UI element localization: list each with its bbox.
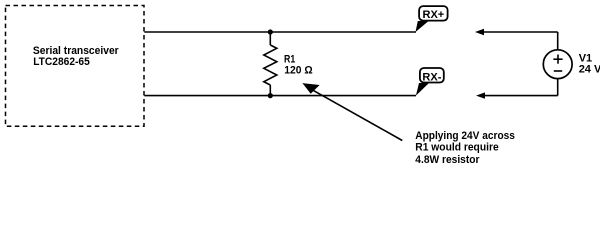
svg-text:4.8W resistor: 4.8W resistor — [415, 154, 480, 163]
svg-text:120 Ω: 120 Ω — [284, 65, 313, 77]
svg-text:Applying 24V across: Applying 24V across — [415, 130, 515, 142]
svg-text:RX-: RX- — [422, 71, 441, 83]
svg-text:R1 would require: R1 would require — [415, 142, 498, 154]
svg-text:LTC2862-65: LTC2862-65 — [33, 56, 90, 68]
svg-text:RX+: RX+ — [423, 9, 445, 21]
svg-text:Serial transceiver: Serial transceiver — [33, 45, 119, 57]
svg-text:V1: V1 — [579, 53, 592, 65]
svg-text:24 V: 24 V — [579, 64, 600, 76]
